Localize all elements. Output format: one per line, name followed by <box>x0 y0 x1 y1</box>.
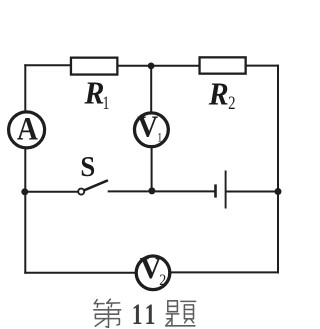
resistor R2 <box>200 57 246 73</box>
wire middle rail switch to battery <box>109 190 215 192</box>
wire middle rail left of switch <box>25 191 78 193</box>
caption character 第 <box>94 299 121 327</box>
svg-text:1: 1 <box>145 298 156 329</box>
label R1 <box>84 75 110 114</box>
wire V1 branch lower <box>151 147 153 191</box>
node junction dot middle rail left <box>21 188 28 195</box>
svg-text:S: S <box>80 151 95 183</box>
wire bottom rail right segment <box>170 271 278 273</box>
label R2 <box>208 75 236 113</box>
wire left rail lower <box>24 149 26 273</box>
svg-text:A: A <box>17 110 39 147</box>
svg-text:V: V <box>140 251 162 285</box>
wire top rail left segment <box>25 64 70 66</box>
ammeter A <box>9 110 45 148</box>
voltmeter V1 <box>135 110 169 147</box>
svg-text:2: 2 <box>228 93 235 114</box>
wire left rail upper <box>24 65 26 112</box>
svg-text:1: 1 <box>157 131 162 144</box>
svg-text:V: V <box>137 110 158 144</box>
resistor R1 <box>71 58 117 75</box>
wire top rail right segment <box>247 65 279 67</box>
svg-text:2: 2 <box>159 272 166 289</box>
battery cell <box>216 171 226 209</box>
switch S <box>78 181 107 195</box>
svg-text:R: R <box>84 75 105 111</box>
node junction dot on top rail <box>148 63 155 70</box>
caption character 题 <box>166 301 196 326</box>
svg-text:1: 1 <box>102 92 109 113</box>
voltmeter V2 <box>136 251 170 290</box>
wire bottom rail left segment <box>25 272 136 274</box>
wire right rail <box>277 66 279 273</box>
node junction dot middle rail right <box>275 188 282 195</box>
node junction dot middle rail centre <box>148 187 155 194</box>
svg-text:1: 1 <box>132 298 143 329</box>
wire middle rail battery to right <box>227 191 278 193</box>
wire top rail middle segment <box>118 65 199 67</box>
wire V1 branch upper <box>150 66 152 113</box>
svg-text:R: R <box>208 75 229 111</box>
